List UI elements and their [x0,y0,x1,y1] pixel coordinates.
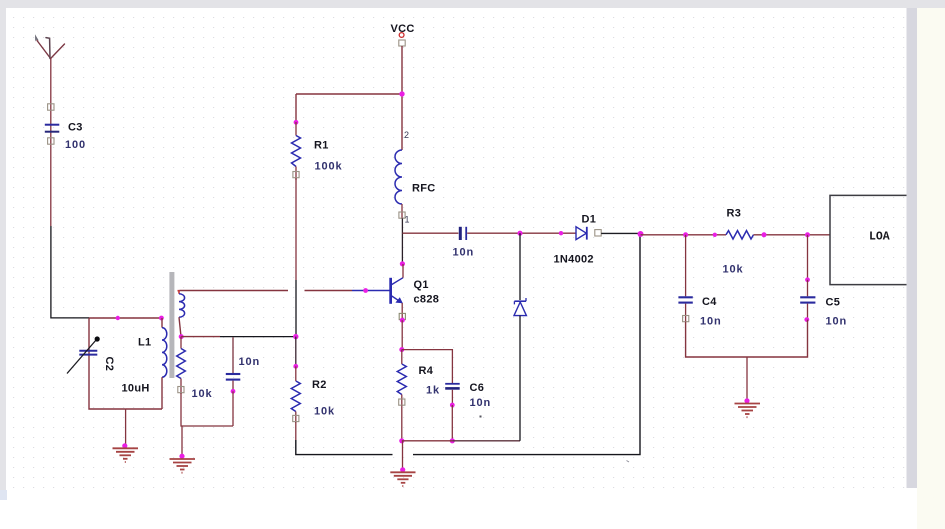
svg-text:R1: R1 [314,140,329,152]
svg-text:10uH: 10uH [122,383,150,395]
svg-text:C5: C5 [826,297,841,309]
node secondary bottom [179,334,184,339]
svg-text:10n: 10n [826,316,848,328]
svg-text:RFC: RFC [412,183,436,195]
svg-text:C2: C2 [103,357,115,372]
wire R1 to bias node [295,178,297,280]
node detector out [638,231,644,237]
block LOA [830,195,907,284]
svg-text:10k: 10k [314,406,335,418]
tank top wire [89,317,162,319]
wire R3 to LOA [754,234,831,236]
wire to R2 [295,337,297,366]
wire cap to D1 [467,232,575,234]
zener diode [514,233,526,441]
wire emitter down [401,320,403,349]
node [559,231,563,235]
svg-text:1k: 1k [426,385,440,397]
wire to bias node [181,336,220,338]
wire collector to coupling cap [402,232,458,234]
antenna [37,38,65,59]
tank left wire [89,318,126,409]
node R1 [294,120,299,125]
wire 10k bottom [181,393,233,426]
svg-text:Q1: Q1 [414,279,429,291]
node [116,316,120,320]
diode D1 [554,214,602,266]
resistor R4 [397,350,440,406]
svg-text:1: 1 [405,215,410,225]
capacitor 10n (left) [226,337,260,426]
ground (right) [735,357,761,417]
node bias [293,334,298,339]
wire node to R3 [641,234,727,236]
wire D1 to node [601,232,640,234]
wire base (secondary top to Q1) with hop gap [180,290,288,292]
node C5 branch [805,232,810,237]
wire C6 bottom [451,405,453,441]
node [159,316,164,321]
svg-text:2: 2 [404,130,409,140]
capacitor 10n coupling [453,227,475,259]
capacitor C5 [800,235,847,328]
cursor mark [35,34,39,41]
svg-text:R2: R2 [312,379,327,391]
capacitor C2 (variable) [67,336,115,373]
node after R3 [762,232,767,237]
svg-text:10n: 10n [453,247,475,259]
capacitor C3 [45,104,86,151]
svg-text:C4: C4 [702,296,717,308]
resistor R2 [291,366,335,423]
svg-text:LOA: LOA [869,231,890,244]
wire R1 top [295,94,297,122]
svg-text:10n: 10n [470,397,492,409]
node emitter [399,347,404,352]
capacitor C4 [678,235,721,328]
svg-text:R3: R3 [727,208,742,220]
wire emitter to C6 [402,350,453,383]
wire C4 bottom [686,322,747,357]
wire RFC to collector [401,218,403,263]
node C4 branch [683,232,688,237]
svg-text:100k: 100k [315,161,343,173]
wire C5 bottom [747,320,808,357]
ground (tank) [113,409,139,462]
inductor L1 [122,318,167,409]
svg-text:L1: L1 [138,337,151,349]
resistor 10k (transformer) [177,337,213,400]
capacitor C6 [445,382,491,409]
svg-text:R4: R4 [419,365,434,377]
svg-text:10n: 10n [700,316,722,328]
tank bottom wire [126,408,162,410]
transistor Q1 [352,264,439,323]
inductor L2 secondary [178,291,185,337]
power VCC [391,23,415,46]
resistor R3 [723,208,754,276]
svg-text:C6: C6 [470,382,485,394]
node zener tee [517,231,522,236]
svg-text:C3: C3 [68,122,83,134]
node [713,233,717,237]
resistor R1 [292,122,343,180]
stray dot [480,416,482,418]
inductor RFC [395,130,436,225]
node VCC [399,91,404,96]
wire antenna to C3 [50,58,52,226]
svg-text:10k: 10k [192,388,213,400]
bottom rail [402,440,453,442]
node collector [400,261,405,266]
node rail right [450,438,455,443]
svg-text:c828: c828 [414,293,440,305]
svg-text:D1: D1 [582,214,597,226]
svg-text:10k: 10k [723,264,744,276]
svg-text:100: 100 [65,139,86,151]
wire VCC to R1 [296,93,402,95]
wire VCC down [401,46,403,150]
wire R2 bottom (AGC) [295,422,297,440]
ground (main) [390,441,415,486]
svg-text:1N4002: 1N4002 [554,254,594,266]
node rail left [399,438,404,443]
wire R4 bottom [401,406,403,441]
stray mark [627,461,630,463]
svg-text:10n: 10n [239,356,261,368]
wire AGC (after hop) [413,234,640,455]
transformer core [169,272,174,378]
node R2 top [293,364,298,369]
ground (10k/10n) [170,426,196,473]
